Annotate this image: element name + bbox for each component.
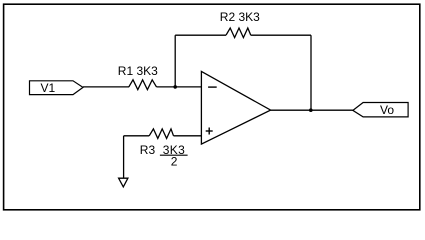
wire: feedback left vertical <box>174 35 176 87</box>
svg-text:Vo: Vo <box>380 103 394 117</box>
wire: feedback right vertical <box>310 35 312 110</box>
input terminal flag V1 <box>30 81 84 95</box>
wire: op-amp output <box>271 109 353 111</box>
wire: feedback top right segment <box>251 34 311 36</box>
op-amp inverting input marker (-) <box>208 86 217 88</box>
junction node at inverting input <box>173 85 177 89</box>
svg-text:V1: V1 <box>40 81 55 95</box>
output terminal flag Vo <box>353 103 408 117</box>
wire: left horizontal to R3 <box>124 135 150 137</box>
junction node at output <box>309 108 313 112</box>
svg-text:R2 3K3: R2 3K3 <box>220 10 260 24</box>
wire: R1 to inverting input <box>157 86 202 88</box>
svg-text:R1 3K3: R1 3K3 <box>118 64 158 78</box>
wire: ground drop <box>123 136 125 178</box>
wire: R3 to non-inverting input <box>174 135 202 137</box>
wire: V1 to R1 <box>83 86 129 88</box>
svg-text:R3: R3 <box>140 143 156 157</box>
op-amp non-inverting input marker (+) <box>206 128 213 135</box>
op-amp U1 triangle <box>201 71 270 144</box>
resistor R3 <box>149 129 173 139</box>
value label R3 3K3/2 <box>140 143 188 169</box>
resistor R2 <box>226 28 251 38</box>
ground <box>119 178 128 187</box>
svg-text:2: 2 <box>171 155 178 169</box>
wire: feedback top left segment <box>175 34 226 36</box>
resistor R1 <box>129 80 157 90</box>
